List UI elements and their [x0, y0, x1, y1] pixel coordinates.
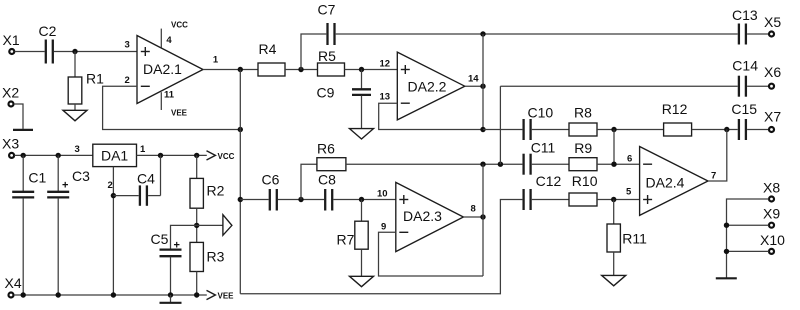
- wire output bus vertical: [239, 70, 241, 294]
- capacitor C6: [262, 172, 280, 211]
- node DA2.3 output: [480, 214, 485, 219]
- wire DA2.2 feedback: [379, 103, 483, 129]
- svg-text:4: 4: [166, 35, 172, 46]
- svg-text:R7: R7: [337, 232, 355, 248]
- ground stub power: [170, 295, 172, 302]
- op-amp DA2.1: [137, 36, 203, 104]
- wire R8 to R12: [597, 129, 664, 131]
- junction X10: [724, 249, 729, 254]
- arrow tap symbol: [223, 215, 232, 236]
- wire X10 row: [727, 250, 769, 252]
- wire R9 to DA2.4 pin6: [597, 163, 640, 165]
- svg-text:+: +: [174, 240, 180, 252]
- wire C4 riser: [160, 155, 162, 195]
- wire R4 to node A: [285, 69, 318, 71]
- svg-text:R12: R12: [662, 101, 688, 117]
- wire DA2.4 output: [708, 130, 727, 182]
- svg-text:14: 14: [468, 74, 479, 85]
- svg-text:DA2.1: DA2.1: [143, 61, 182, 77]
- svg-text:8: 8: [471, 204, 476, 215]
- resistor R11: [607, 200, 647, 253]
- wire R6 riser: [301, 164, 317, 199]
- node R10/R11: [611, 197, 616, 202]
- node C6/C8/R6: [298, 197, 303, 202]
- wire C7 to C13 top row: [336, 33, 738, 35]
- wire R7 to ground: [361, 249, 363, 276]
- junction R6 row / C14 riser: [498, 162, 503, 167]
- svg-text:X6: X6: [764, 64, 781, 80]
- wire C8 to DA2.3 pin10: [333, 199, 395, 201]
- junction C9 top: [359, 67, 364, 72]
- svg-text:R8: R8: [574, 105, 592, 121]
- wire node A riser to C7: [301, 34, 326, 70]
- terminal X2: [2, 85, 19, 107]
- svg-text:7: 7: [711, 171, 716, 182]
- svg-text:X2: X2: [2, 85, 19, 101]
- capacitor C1: [12, 155, 46, 295]
- resistor R4: [258, 41, 285, 76]
- junction feedback on bus: [238, 127, 243, 132]
- svg-text:C5: C5: [151, 231, 169, 247]
- svg-text:X10: X10: [760, 232, 785, 248]
- junction R3 bottom: [194, 292, 199, 297]
- ground under R11: [602, 275, 626, 285]
- node junction C2/R1: [72, 49, 77, 54]
- capacitor C14: [732, 58, 758, 97]
- wire C14 to X6: [747, 85, 769, 87]
- svg-text:3: 3: [125, 40, 130, 51]
- wire R6 to C11 row: [346, 163, 523, 165]
- terminal X6: [764, 64, 781, 89]
- terminal X4: [5, 275, 22, 298]
- junction C3 bottom: [56, 292, 61, 297]
- resistor R12: [662, 101, 692, 136]
- node DA2.2 output: [480, 84, 485, 89]
- capacitor C13: [732, 7, 758, 45]
- junction R6 row / DA2.3 out riser: [480, 162, 485, 167]
- junction C4 left: [111, 193, 116, 198]
- svg-text:9: 9: [381, 222, 386, 233]
- svg-text:X3: X3: [2, 136, 19, 152]
- op-amp DA2.3: [396, 182, 464, 251]
- svg-text:12: 12: [380, 59, 391, 70]
- wire C6 to C8: [278, 199, 324, 201]
- svg-text:2: 2: [108, 180, 113, 191]
- wire to arrow tap: [197, 224, 223, 226]
- resistor R8: [569, 105, 597, 137]
- svg-text:6: 6: [627, 154, 632, 165]
- wire C14 row to X6: [500, 85, 737, 87]
- wire DA2.2 output riser: [482, 34, 484, 130]
- wire C9 to ground: [361, 96, 363, 129]
- svg-text:VEE: VEE: [218, 291, 235, 300]
- svg-text:R1: R1: [86, 71, 104, 87]
- svg-text:VCC: VCC: [218, 152, 235, 161]
- resistor R3: [190, 242, 225, 295]
- junction top row / DA2.2 out riser: [480, 31, 485, 36]
- wire R5 to DA2.2 pin12: [345, 69, 398, 71]
- capacitor C8: [318, 172, 336, 211]
- svg-text:X1: X1: [3, 32, 20, 48]
- pin 4 VCC stub: [161, 21, 188, 48]
- svg-text:C10: C10: [528, 105, 554, 121]
- wire C11 to R9: [532, 163, 569, 165]
- wire R10 to DA2.4 pin5: [597, 199, 640, 201]
- svg-text:3: 3: [75, 144, 80, 155]
- junction X9: [724, 223, 729, 228]
- svg-text:VEE: VEE: [171, 109, 188, 118]
- wire DA2.3 feedback: [379, 232, 484, 276]
- ground under R1: [63, 110, 87, 121]
- capacitor C9: [317, 70, 372, 101]
- svg-text:X8: X8: [763, 180, 780, 196]
- svg-text:C6: C6: [262, 172, 280, 188]
- svg-text:R9: R9: [574, 140, 592, 156]
- capacitor C10: [524, 105, 554, 141]
- svg-text:R6: R6: [317, 141, 335, 157]
- wire R12 to C15: [692, 129, 738, 131]
- wire C10 to R8: [532, 129, 569, 131]
- svg-text:R3: R3: [207, 249, 225, 265]
- wire DA2.3 output riser: [482, 164, 484, 276]
- wire bottom loop bus to C12: [240, 200, 522, 294]
- svg-text:13: 13: [380, 92, 391, 103]
- capacitor C4: [113, 171, 160, 206]
- junction C1 top: [21, 153, 26, 158]
- node DA2.1 output: [238, 67, 243, 72]
- wire R1 to ground: [74, 104, 76, 110]
- capacitor C3 electrolytic: [47, 155, 90, 295]
- node DA2.4 output / C15: [724, 127, 729, 132]
- wire X3 to DA1: [14, 154, 92, 156]
- junction DA1 pin2 bottom: [111, 292, 116, 297]
- terminal X5: [764, 14, 781, 37]
- svg-text:X5: X5: [764, 14, 781, 30]
- ground bar power: [160, 302, 182, 304]
- pin 11 VEE stub: [161, 90, 187, 118]
- svg-text:C12: C12: [536, 173, 562, 189]
- ground under R7: [350, 276, 374, 286]
- capacitor C7: [318, 2, 336, 46]
- wire bus to C6: [240, 199, 268, 201]
- svg-text:DA2.2: DA2.2: [408, 79, 447, 95]
- junction C4 riser: [158, 153, 163, 158]
- junction R7 top: [359, 197, 364, 202]
- wire X4 VEE rail: [14, 294, 207, 296]
- svg-text:2: 2: [125, 75, 130, 86]
- wire DA1 output to VCC: [137, 154, 207, 156]
- terminal X9: [763, 206, 780, 228]
- resistor R5: [318, 48, 345, 76]
- terminal X7: [764, 109, 781, 133]
- svg-text:C15: C15: [731, 101, 757, 117]
- wire C14 riser: [499, 86, 501, 164]
- resistor R1: [68, 71, 104, 105]
- junction C5 bottom: [168, 292, 173, 297]
- svg-text:X4: X4: [5, 275, 22, 291]
- terminal X10: [760, 232, 785, 254]
- svg-text:DA1: DA1: [101, 148, 128, 164]
- svg-text:R2: R2: [207, 183, 225, 199]
- svg-text:DA2.3: DA2.3: [403, 208, 442, 224]
- wire DA2.1 output: [203, 69, 258, 71]
- svg-text:R11: R11: [622, 231, 647, 247]
- svg-text:R10: R10: [572, 173, 598, 189]
- ground bar X8 bus: [716, 277, 737, 279]
- svg-text:C2: C2: [39, 23, 57, 39]
- junction feedback/C10 row: [480, 127, 485, 132]
- capacitor C5 electrolytic: [151, 225, 197, 295]
- terminal X1: [3, 32, 20, 54]
- wire X9 row: [727, 224, 769, 226]
- wire C13 to X5: [747, 33, 769, 35]
- svg-text:R5: R5: [318, 48, 336, 64]
- capacitor C15: [731, 101, 757, 140]
- capacitor C11: [524, 140, 556, 175]
- op-amp DA2.2: [397, 52, 465, 120]
- junction C6 branch on bus: [238, 197, 243, 202]
- svg-text:C1: C1: [28, 170, 46, 186]
- resistor R7: [337, 200, 369, 250]
- resistor R2: [190, 155, 225, 208]
- svg-text:VCC: VCC: [171, 21, 188, 30]
- node R9/pin6: [611, 162, 616, 167]
- VEE arrow: [207, 290, 235, 300]
- node A junction R4/R5/C7: [298, 67, 303, 72]
- svg-text:C7: C7: [318, 2, 336, 18]
- svg-text:DA2.4: DA2.4: [646, 175, 685, 191]
- wire R11 to ground: [613, 252, 615, 275]
- node R2/R3 midpoint: [196, 208, 198, 242]
- ground bar X2: [13, 129, 33, 131]
- op-amp DA2.4: [640, 147, 708, 216]
- svg-text:10: 10: [377, 189, 388, 200]
- wire X1 to C2: [15, 51, 45, 53]
- wire DA1 pin2 down: [112, 167, 114, 295]
- svg-text:+: +: [62, 180, 68, 192]
- terminal X3: [2, 136, 19, 158]
- svg-text:1: 1: [213, 55, 219, 66]
- wire X2 to ground: [14, 104, 23, 129]
- wire DA2.3 output: [463, 216, 483, 218]
- wire C12 to R10: [532, 199, 569, 201]
- wire C2 to DA2.1 pin3: [54, 51, 137, 53]
- VCC arrow: [207, 151, 235, 161]
- svg-text:C4: C4: [137, 171, 155, 187]
- junction C1 bottom: [21, 292, 26, 297]
- terminal X8: [763, 180, 780, 202]
- svg-text:C8: C8: [318, 172, 336, 188]
- node R8/R12 summing: [611, 127, 616, 132]
- svg-text:C13: C13: [732, 7, 758, 23]
- resistor R6: [317, 141, 346, 171]
- capacitor C2: [39, 23, 57, 64]
- resistor R10: [569, 173, 598, 206]
- wire summing riser: [613, 130, 615, 165]
- wire C15 to X7: [747, 129, 769, 131]
- svg-text:C9: C9: [317, 85, 335, 101]
- svg-text:C11: C11: [531, 140, 556, 156]
- wire to C10: [483, 129, 522, 131]
- svg-text:C14: C14: [732, 58, 758, 74]
- resistor R9: [569, 140, 597, 171]
- svg-text:1: 1: [140, 144, 146, 155]
- wire DA2.1 feedback: [103, 86, 241, 129]
- svg-text:C3: C3: [72, 168, 90, 184]
- capacitor C12: [524, 173, 562, 210]
- svg-text:R4: R4: [259, 41, 277, 57]
- ground under C9: [350, 129, 374, 139]
- svg-text:X9: X9: [763, 206, 780, 222]
- svg-text:X7: X7: [764, 109, 781, 125]
- wire X8 row: [727, 199, 769, 278]
- svg-text:5: 5: [626, 187, 632, 198]
- junction R2 top: [194, 153, 199, 158]
- wire to R1: [74, 52, 76, 78]
- regulator DA1: [93, 144, 137, 166]
- wire DA2.2 output: [465, 85, 483, 87]
- junction C3 top: [56, 153, 61, 158]
- svg-text:11: 11: [164, 90, 175, 101]
